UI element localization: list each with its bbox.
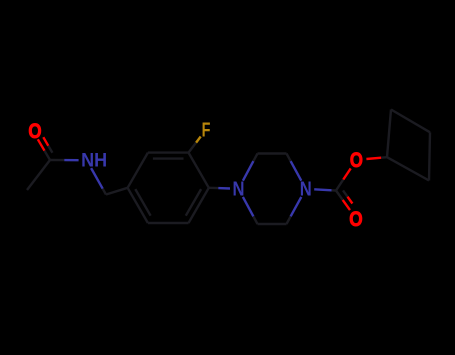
acetyl C=O double bond — [38, 137, 53, 160]
benzene edge TR-R — [189, 153, 209, 188]
svg-text:O: O — [28, 119, 41, 143]
svg-text:NH: NH — [81, 151, 107, 172]
piperazine N2-C bond upper — [243, 154, 258, 181]
cyclobutane edge left — [387, 110, 391, 158]
carbamate C=O double bond — [336, 190, 352, 210]
ester O-C bond — [366, 157, 387, 159]
benzene edge BL-L — [128, 188, 148, 223]
carbamate N-C bond — [314, 189, 336, 190]
amide C-N bond — [50, 159, 79, 162]
cyclobutane edge right — [429, 132, 430, 180]
benzene edge TL-TR — [148, 151, 189, 153]
acetyl methyl bond — [27, 160, 50, 190]
benzene edge R-BR — [189, 188, 209, 223]
piperazine N2-C bond lower — [243, 197, 258, 224]
aryl C-F bond — [189, 137, 201, 153]
piperazine N3-C bond upper — [287, 154, 302, 181]
svg-text:F: F — [202, 119, 211, 141]
svg-text:N: N — [233, 179, 245, 201]
amide N-CH2 bond — [91, 168, 106, 194]
benzene edge L-TL — [128, 153, 148, 188]
svg-text:N: N — [300, 179, 312, 201]
svg-text:O: O — [349, 207, 362, 231]
benzene edge BR-BL — [148, 222, 189, 224]
carbamate C-O single bond — [336, 168, 351, 190]
piperazine bottom C-C bond — [258, 223, 287, 225]
cyclobutane edge top — [391, 110, 430, 133]
benzene inner double-bond line lower-left — [135, 189, 150, 216]
svg-text:O: O — [350, 148, 363, 172]
piperazine top C-C bond — [258, 152, 287, 154]
benzene inner double-bond line lower-right — [186, 189, 201, 216]
cyclobutane edge bottom — [387, 157, 429, 180]
benzene inner double-bond line top — [153, 157, 184, 159]
piperazine N3-C bond lower — [287, 197, 302, 224]
aryl C-N bond — [209, 187, 230, 190]
benzylic CH2-ring bond — [106, 188, 128, 195]
